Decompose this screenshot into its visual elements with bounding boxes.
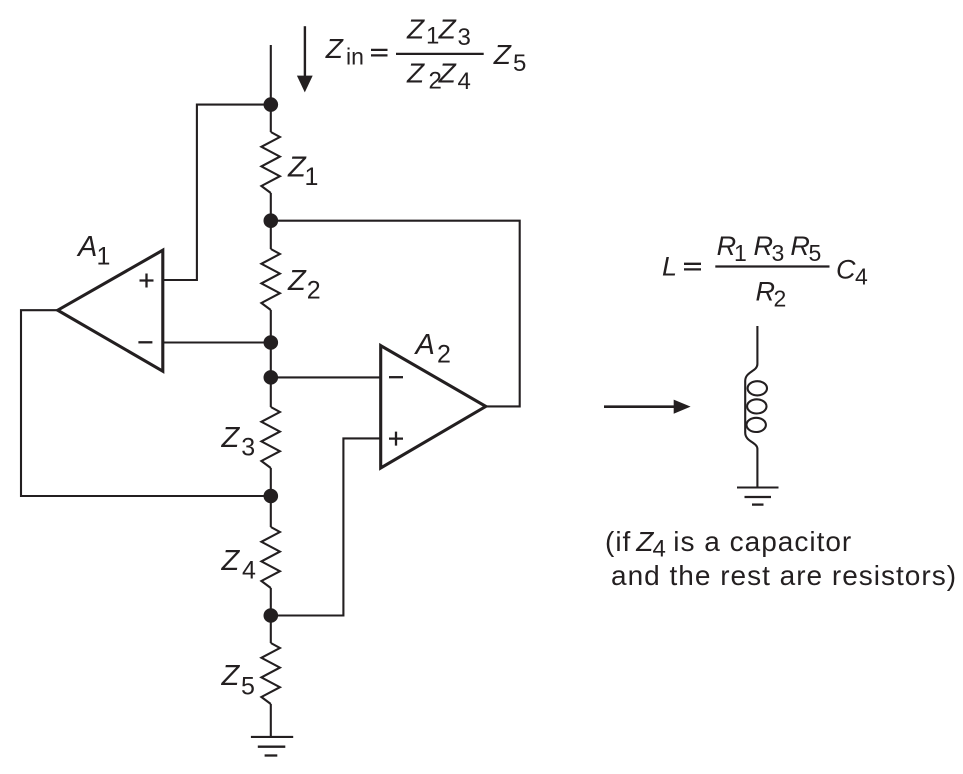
svg-text:A2: A2 <box>414 329 451 368</box>
input arrow line <box>304 26 306 78</box>
svg-text:Z1: Z1 <box>287 152 318 191</box>
svg-text:C4: C4 <box>836 255 868 290</box>
wire rail Z3 to Z4 <box>270 468 272 527</box>
svg-text:Zin: Zin <box>325 33 364 69</box>
op-amp A2 triangle <box>381 346 486 468</box>
node E (Z3-Z4 junction) <box>264 489 279 504</box>
resistor Z1 <box>261 132 280 193</box>
fraction bar Zin formula <box>396 53 484 55</box>
wire rail node4 to Z3 <box>270 377 272 407</box>
svg-text:R1R3R5: R1R3R5 <box>717 231 822 266</box>
node D (A2 inverting input junction) <box>264 370 279 385</box>
resistor Z3 <box>261 407 280 468</box>
wire node2 to right rail to A2 output <box>271 221 520 407</box>
wire A1 output feedback to node5 <box>21 310 271 496</box>
node B (Z1-Z2 junction) <box>264 213 279 228</box>
wire node1 to A1 + input <box>163 105 271 280</box>
wire A1 - input to node3 <box>163 341 271 343</box>
wire rail Z2 to node4 <box>270 310 272 377</box>
ground under inductor <box>737 486 779 488</box>
wire rail Z1 to Z2 <box>270 193 272 249</box>
A2 minus sign <box>389 376 403 378</box>
node F (Z4-Z5 junction) <box>264 608 279 623</box>
inductor loop 1 <box>748 381 767 395</box>
inductor L lead and spine <box>745 326 757 487</box>
wire top input lead <box>270 45 272 132</box>
A2 plus sign <box>389 432 403 446</box>
svg-text:Z1Z3: Z1Z3 <box>406 13 471 51</box>
svg-text:Z2Z4: Z2Z4 <box>406 58 471 95</box>
input arrowhead <box>297 76 313 93</box>
transform arrow line <box>604 405 675 408</box>
svg-text:Z5: Z5 <box>493 39 527 77</box>
inductor loop 2 <box>747 399 766 413</box>
node A (top input node) <box>264 97 279 112</box>
svg-text:A1: A1 <box>76 231 110 270</box>
resistor Z5 <box>261 643 280 704</box>
svg-text:and the rest are resistors): and the rest are resistors) <box>611 560 957 591</box>
node C (A1 inverting input junction) <box>264 335 279 350</box>
resistor Z4 <box>261 527 280 588</box>
transform arrowhead <box>674 400 691 414</box>
resistor Z2 <box>261 249 280 310</box>
equals sign L formula <box>684 264 701 270</box>
wire Z5 to ground <box>270 704 272 737</box>
A1 plus sign <box>140 274 154 288</box>
wire rail Z4 to Z5 <box>270 588 272 643</box>
svg-text:Z4: Z4 <box>221 545 257 584</box>
A1 minus sign <box>138 341 152 343</box>
svg-text:Z3: Z3 <box>221 422 256 461</box>
svg-text:(if Z4 is a capacitor: (if Z4 is a capacitor <box>605 526 852 563</box>
wire node4 to A2 - input <box>271 376 381 378</box>
svg-text:Z5: Z5 <box>221 660 255 700</box>
inductor loop 3 <box>747 418 766 432</box>
fraction bar L formula <box>715 265 829 267</box>
svg-text:R2: R2 <box>756 276 787 311</box>
op-amp A1 triangle <box>58 250 163 371</box>
ground main <box>251 736 293 738</box>
wire node6 to A2 + input <box>271 438 381 615</box>
svg-text:Z2: Z2 <box>287 265 321 304</box>
svg-text:L: L <box>662 252 677 282</box>
equals sign Zin formula <box>371 50 388 56</box>
